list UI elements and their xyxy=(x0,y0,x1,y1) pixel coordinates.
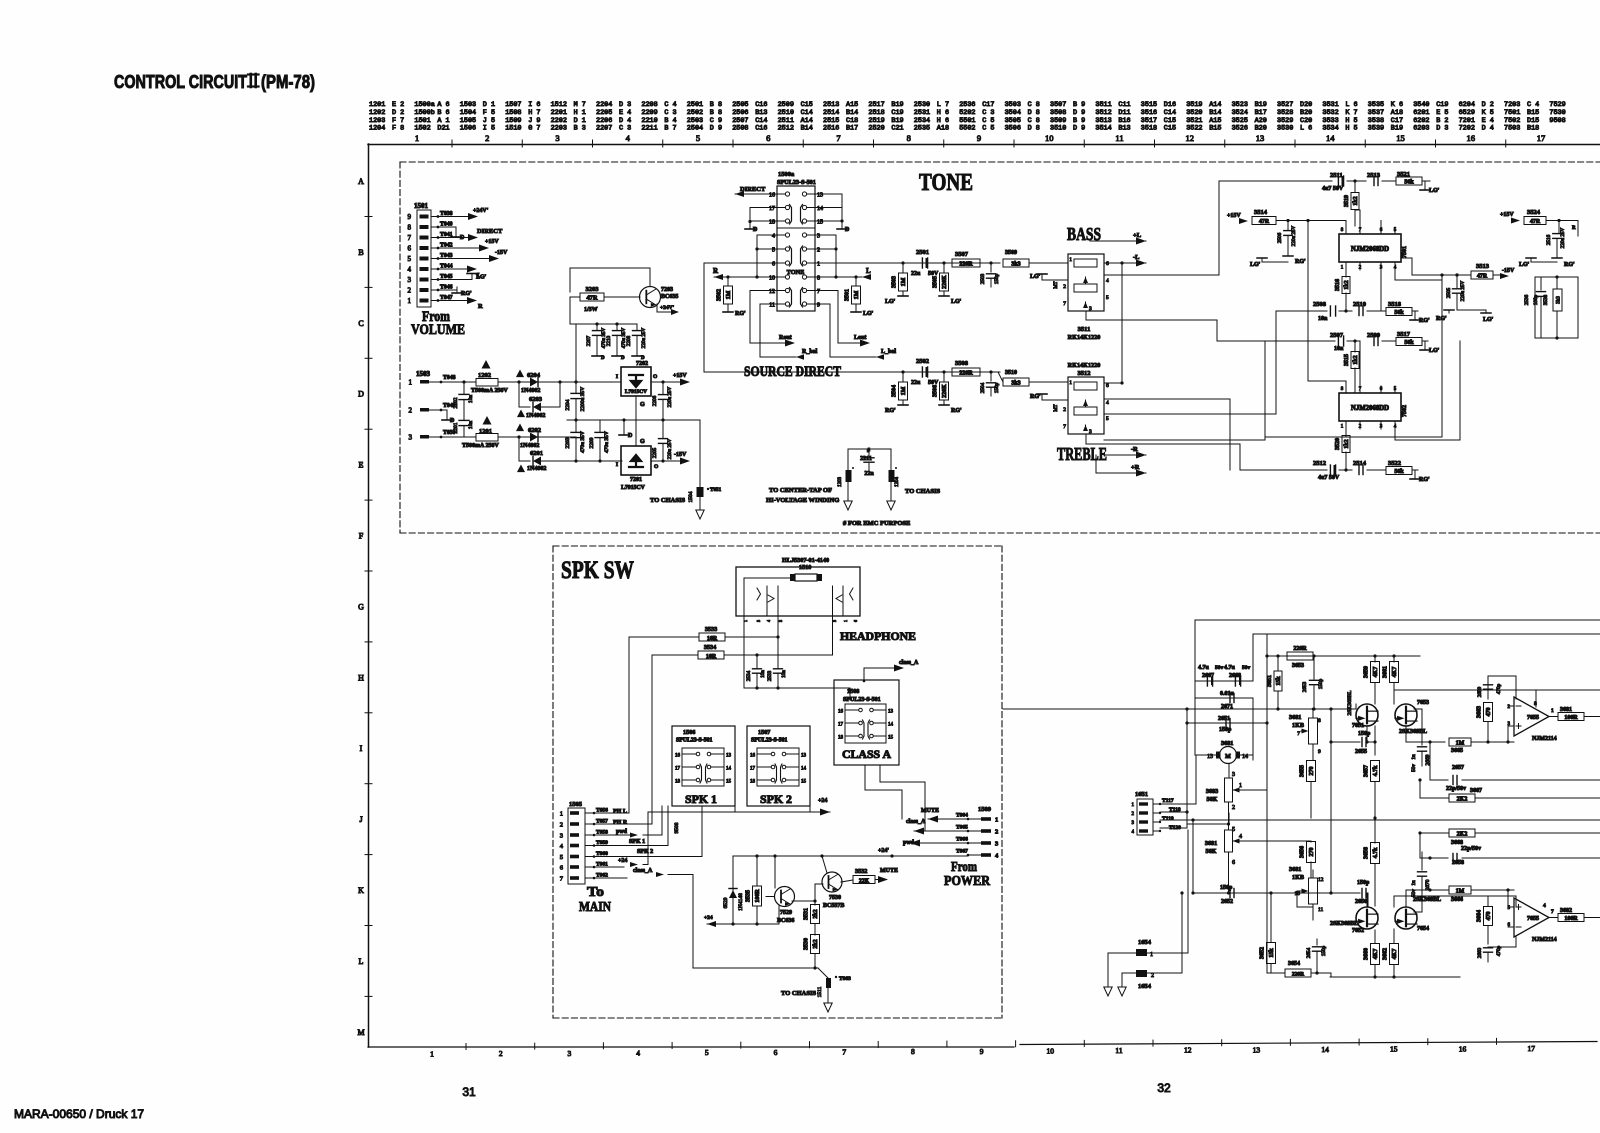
svg-text:7201: 7201 xyxy=(1459,117,1475,125)
svg-text:4u7 50V: 4u7 50V xyxy=(1322,186,1344,192)
svg-text:4: 4 xyxy=(1106,400,1109,406)
svg-text:2512: 2512 xyxy=(778,125,794,133)
svg-text:2SK369BL: 2SK369BL xyxy=(1347,690,1353,716)
svg-text:220R: 220R xyxy=(1293,646,1307,652)
svg-text:T051: T051 xyxy=(710,487,722,493)
svg-text:1503: 1503 xyxy=(416,370,431,378)
svg-text:16: 16 xyxy=(838,710,844,715)
svg-text:C16: C16 xyxy=(755,125,767,133)
svg-text:C15: C15 xyxy=(1164,117,1176,125)
svg-text:LG': LG' xyxy=(1429,188,1440,194)
svg-text:470u 35V: 470u 35V xyxy=(580,431,586,453)
svg-text:B17: B17 xyxy=(1255,109,1267,117)
svg-text:3530: 3530 xyxy=(804,938,810,950)
svg-text:TONE: TONE xyxy=(919,170,973,196)
svg-text:D 2: D 2 xyxy=(392,109,404,117)
svg-text:C20: C20 xyxy=(1300,117,1312,125)
svg-text:M: M xyxy=(357,1028,364,1037)
svg-text:5: 5 xyxy=(696,133,700,143)
svg-text:LG': LG' xyxy=(1519,262,1530,268)
svg-text:C15: C15 xyxy=(1164,125,1176,133)
svg-text:220u 25V: 220u 25V xyxy=(1291,225,1297,246)
svg-text:1202: 1202 xyxy=(478,372,491,379)
svg-text:1: 1 xyxy=(1551,708,1554,714)
svg-text:D 9: D 9 xyxy=(1073,125,1085,133)
svg-text:2SK369BL: 2SK369BL xyxy=(1413,897,1441,903)
svg-text:D: D xyxy=(641,356,645,361)
svg-text:RG': RG' xyxy=(1419,318,1430,324)
svg-text:3522: 3522 xyxy=(1186,125,1202,133)
svg-text:7: 7 xyxy=(1063,424,1066,430)
svg-text:4K7: 4K7 xyxy=(1373,949,1379,960)
svg-text:2: 2 xyxy=(1063,407,1066,413)
svg-text:220u 25V: 220u 25V xyxy=(667,386,673,407)
svg-text:11: 11 xyxy=(1115,133,1123,143)
svg-text:D 9: D 9 xyxy=(1073,109,1085,117)
svg-text:RG': RG' xyxy=(885,408,896,414)
svg-text:3514: 3514 xyxy=(1095,125,1111,133)
svg-text:3540: 3540 xyxy=(1413,101,1429,109)
svg-text:220R: 220R xyxy=(959,371,973,377)
svg-text:47R: 47R xyxy=(1259,219,1270,225)
svg-text:B 2: B 2 xyxy=(1436,117,1448,125)
svg-text:1M: 1M xyxy=(1456,741,1465,747)
svg-text:3506: 3506 xyxy=(1005,125,1021,133)
svg-text:3654: 3654 xyxy=(1288,961,1300,967)
svg-text:11: 11 xyxy=(1318,907,1324,913)
svg-text:2651: 2651 xyxy=(1218,716,1230,722)
svg-text:3521: 3521 xyxy=(1186,117,1202,125)
svg-text:2204: 2204 xyxy=(565,399,571,410)
svg-text:+15V: +15V xyxy=(485,239,499,245)
svg-text:1501: 1501 xyxy=(414,117,430,125)
svg-text:14: 14 xyxy=(817,206,823,212)
svg-text:10: 10 xyxy=(1045,133,1054,143)
svg-text:56k: 56k xyxy=(1394,310,1404,316)
svg-text:3514: 3514 xyxy=(1254,209,1268,216)
svg-text:47R: 47R xyxy=(1530,219,1541,225)
svg-text:3530: 3530 xyxy=(1277,125,1293,133)
svg-text:1504: 1504 xyxy=(460,109,476,117)
svg-text:9: 9 xyxy=(980,1047,984,1056)
svg-text:7654: 7654 xyxy=(1417,926,1429,932)
svg-text:7653: 7653 xyxy=(1417,700,1429,706)
svg-text:K 6: K 6 xyxy=(1391,101,1403,109)
svg-text:E 5: E 5 xyxy=(1436,109,1448,117)
svg-text:7: 7 xyxy=(1297,731,1300,737)
svg-text:470p: 470p xyxy=(1496,683,1502,694)
svg-text:50K: 50K xyxy=(1206,796,1217,803)
svg-text:I: I xyxy=(616,374,618,380)
svg-text:B19: B19 xyxy=(891,101,903,109)
svg-text:SPK SW: SPK SW xyxy=(561,557,634,584)
svg-text:50v: 50v xyxy=(1242,665,1251,671)
svg-text:3505: 3505 xyxy=(1005,117,1021,125)
svg-text:2: 2 xyxy=(817,248,820,254)
svg-text:1203: 1203 xyxy=(838,477,843,488)
svg-text:T117: T117 xyxy=(1162,798,1174,804)
svg-text:3516: 3516 xyxy=(1141,109,1157,117)
svg-text:(PM-78): (PM-78) xyxy=(261,72,315,92)
svg-text:D 8: D 8 xyxy=(1028,125,1040,133)
svg-text:1M: 1M xyxy=(1456,889,1465,895)
svg-text:2207: 2207 xyxy=(596,125,612,133)
svg-text:3511: 3511 xyxy=(1095,101,1111,109)
svg-text:2503: 2503 xyxy=(687,117,703,125)
svg-text:22p/50v: 22p/50v xyxy=(1446,786,1466,792)
svg-text:I 6: I 6 xyxy=(528,101,540,109)
svg-text:L_bal: L_bal xyxy=(881,349,896,355)
svg-text:RK14K1220: RK14K1220 xyxy=(1068,334,1101,341)
svg-text:4.7k: 4.7k xyxy=(1373,847,1379,859)
svg-text:BC557B: BC557B xyxy=(823,903,844,909)
svg-text:100R: 100R xyxy=(755,889,761,903)
svg-text:T500mA 250V: T500mA 250V xyxy=(462,443,500,449)
svg-text:D21: D21 xyxy=(437,125,449,133)
svg-text:L7915CV: L7915CV xyxy=(621,485,646,491)
svg-text:B19: B19 xyxy=(1391,125,1403,133)
svg-text:2535: 2535 xyxy=(914,125,930,133)
svg-text:5202: 5202 xyxy=(959,109,975,117)
svg-text:3507: 3507 xyxy=(955,251,969,258)
svg-text:A15: A15 xyxy=(1209,117,1221,125)
svg-text:2518: 2518 xyxy=(868,109,884,117)
svg-text:15: 15 xyxy=(888,736,894,741)
svg-text:7652: 7652 xyxy=(1352,928,1364,934)
svg-text:C14: C14 xyxy=(1164,109,1176,117)
svg-text:NJM2114: NJM2114 xyxy=(1532,736,1557,742)
svg-text:1u: 1u xyxy=(1411,880,1417,886)
svg-text:3534: 3534 xyxy=(704,644,716,651)
svg-text:B15: B15 xyxy=(1527,109,1539,117)
svg-text:5: 5 xyxy=(705,1048,709,1057)
svg-text:6: 6 xyxy=(1106,261,1109,267)
svg-text:1: 1 xyxy=(1069,257,1072,263)
svg-text:1k2: 1k2 xyxy=(1353,196,1359,205)
svg-text:7201: 7201 xyxy=(630,477,642,483)
svg-text:12: 12 xyxy=(1186,133,1195,143)
svg-text:D: D xyxy=(621,356,625,361)
svg-text:1654: 1654 xyxy=(1138,939,1152,946)
svg-text:17: 17 xyxy=(769,206,775,212)
svg-text:L 6: L 6 xyxy=(1300,125,1312,133)
svg-text:9: 9 xyxy=(977,133,981,143)
svg-text:C 4: C 4 xyxy=(664,101,676,109)
svg-text:RK14K1220: RK14K1220 xyxy=(1068,362,1101,369)
svg-text:2: 2 xyxy=(409,407,413,415)
svg-text:3665: 3665 xyxy=(1451,748,1463,754)
svg-text:5502: 5502 xyxy=(959,125,975,133)
svg-text:100p: 100p xyxy=(1533,294,1539,305)
svg-text:2504: 2504 xyxy=(687,125,703,133)
svg-text:5: 5 xyxy=(772,248,775,254)
svg-text:C16: C16 xyxy=(755,101,767,109)
svg-text:13: 13 xyxy=(1256,133,1265,143)
svg-text:2507: 2507 xyxy=(732,117,748,125)
svg-text:1N4002: 1N4002 xyxy=(527,466,546,472)
svg-text:G: G xyxy=(640,439,645,445)
svg-text:470p: 470p xyxy=(1496,945,1502,956)
svg-text:14: 14 xyxy=(1326,133,1335,143)
svg-text:270: 270 xyxy=(1309,848,1315,857)
svg-text:12: 12 xyxy=(769,289,775,295)
svg-text:B17: B17 xyxy=(846,125,858,133)
svg-text:1: 1 xyxy=(817,262,820,268)
svg-text:50K: 50K xyxy=(1205,848,1216,855)
svg-text:LG': LG' xyxy=(1483,317,1494,323)
svg-text:A15: A15 xyxy=(846,101,858,109)
svg-text:TO CHASIS: TO CHASIS xyxy=(781,990,816,997)
svg-text:LG': LG' xyxy=(1429,348,1440,354)
svg-text:32: 32 xyxy=(1157,1081,1171,1095)
svg-text:3503: 3503 xyxy=(892,276,898,288)
svg-text:B15: B15 xyxy=(1209,125,1221,133)
svg-text:3512: 3512 xyxy=(1095,109,1111,117)
svg-text:7202: 7202 xyxy=(1459,125,1475,133)
svg-text:2502: 2502 xyxy=(687,109,703,117)
svg-text:31: 31 xyxy=(462,1085,476,1099)
svg-text:2514: 2514 xyxy=(823,109,839,117)
svg-text:2202: 2202 xyxy=(551,117,567,125)
svg-text:13: 13 xyxy=(1253,1045,1261,1054)
svg-text:8: 8 xyxy=(911,1047,915,1056)
svg-text:1503: 1503 xyxy=(460,101,476,109)
svg-text:1: 1 xyxy=(995,817,998,824)
svg-text:7503: 7503 xyxy=(1504,125,1520,133)
svg-text:2508: 2508 xyxy=(1313,301,1327,308)
svg-text:1510: 1510 xyxy=(505,125,521,133)
svg-text:+L: +L xyxy=(1133,232,1142,239)
svg-text:100R: 100R xyxy=(1564,715,1578,721)
svg-text:3532: 3532 xyxy=(1322,109,1338,117)
svg-text:-15V: -15V xyxy=(495,250,508,256)
svg-text:22u: 22u xyxy=(911,271,921,277)
svg-text:I 5: I 5 xyxy=(483,125,495,133)
svg-text:1N4002: 1N4002 xyxy=(526,413,545,419)
svg-text:220R: 220R xyxy=(1292,972,1305,978)
svg-text:2515: 2515 xyxy=(823,117,839,125)
svg-text:5: 5 xyxy=(408,255,412,263)
svg-text:9508: 9508 xyxy=(1549,117,1565,125)
svg-text:L 6: L 6 xyxy=(1345,101,1357,109)
svg-text:2501: 2501 xyxy=(916,249,929,256)
svg-text:1511: 1511 xyxy=(817,986,823,997)
svg-text:6: 6 xyxy=(1106,383,1109,389)
svg-text:16: 16 xyxy=(1459,1044,1467,1053)
svg-text:10n: 10n xyxy=(760,670,766,678)
svg-text:T067: T067 xyxy=(956,849,968,855)
svg-text:H 1: H 1 xyxy=(574,109,586,117)
svg-text:3: 3 xyxy=(1232,772,1235,778)
svg-text:3667: 3667 xyxy=(1470,788,1482,794)
svg-text:SPK 1: SPK 1 xyxy=(629,839,645,845)
svg-text:1k2: 1k2 xyxy=(1353,355,1359,364)
svg-text:3: 3 xyxy=(1089,306,1092,312)
svg-text:I: I xyxy=(360,744,363,753)
svg-text:150p: 150p xyxy=(1219,727,1232,733)
svg-text:HLJ5307-01-4140: HLJ5307-01-4140 xyxy=(782,557,829,564)
svg-text:3537: 3537 xyxy=(1368,109,1384,117)
svg-text:B 9: B 9 xyxy=(1073,117,1085,125)
svg-text:H 7: H 7 xyxy=(528,109,540,117)
svg-text:17: 17 xyxy=(838,723,844,728)
svg-text:3529: 3529 xyxy=(1277,117,1293,125)
svg-text:2202: 2202 xyxy=(453,397,459,408)
svg-text:8: 8 xyxy=(907,133,911,143)
svg-text:2658: 2658 xyxy=(1452,860,1464,866)
svg-text:T119: T119 xyxy=(1162,816,1174,822)
svg-text:D: D xyxy=(845,227,850,233)
svg-text:# FOR EMC PURPOSE: # FOR EMC PURPOSE xyxy=(843,520,910,527)
svg-text:7: 7 xyxy=(1063,301,1066,307)
svg-text:1500a: 1500a xyxy=(778,171,795,178)
svg-text:2655: 2655 xyxy=(1355,749,1367,755)
svg-text:D: D xyxy=(601,356,605,361)
svg-text:E 4: E 4 xyxy=(1482,117,1494,125)
svg-text:0.01u: 0.01u xyxy=(1220,691,1235,697)
svg-text:2506: 2506 xyxy=(1277,232,1283,243)
svg-text:470u 35V: 470u 35V xyxy=(604,431,610,453)
svg-text:3681: 3681 xyxy=(1289,866,1301,873)
svg-text:R: R xyxy=(478,303,483,310)
svg-text:2505: 2505 xyxy=(732,101,748,109)
svg-text:4.7k: 4.7k xyxy=(1373,765,1379,777)
svg-text:18: 18 xyxy=(838,736,844,741)
svg-text:T066: T066 xyxy=(956,837,968,843)
svg-text:1M: 1M xyxy=(726,290,732,299)
svg-text:C15: C15 xyxy=(801,101,813,109)
svg-text:15: 15 xyxy=(801,780,807,785)
svg-text:270: 270 xyxy=(1309,767,1315,776)
svg-text:1502: 1502 xyxy=(414,125,430,133)
svg-text:+15V: +15V xyxy=(1500,212,1514,218)
svg-text:220u 25V: 220u 25V xyxy=(1460,280,1466,301)
svg-text:MAIN: MAIN xyxy=(579,900,611,915)
svg-text:B13: B13 xyxy=(1118,125,1130,133)
svg-text:E: E xyxy=(359,461,364,470)
svg-text:2534: 2534 xyxy=(914,117,930,125)
svg-text:PH L: PH L xyxy=(613,809,627,815)
svg-text:3655: 3655 xyxy=(1300,765,1306,777)
svg-text:1505: 1505 xyxy=(460,117,476,125)
svg-text:150p: 150p xyxy=(1318,678,1324,689)
svg-text:3: 3 xyxy=(1089,429,1092,435)
svg-text:LG': LG' xyxy=(863,311,874,317)
svg-text:TO CHASIS: TO CHASIS xyxy=(650,497,685,504)
svg-text:15: 15 xyxy=(1390,1045,1398,1054)
svg-text:O: O xyxy=(653,374,658,380)
svg-text:9508: 9508 xyxy=(674,822,680,833)
svg-text:2: 2 xyxy=(560,822,563,829)
svg-text:C 3: C 3 xyxy=(982,109,994,117)
svg-text:6529: 6529 xyxy=(723,897,729,908)
svg-text:1: 1 xyxy=(560,811,563,818)
svg-text:1651: 1651 xyxy=(1135,791,1148,798)
svg-text:3519: 3519 xyxy=(1344,195,1350,207)
svg-text:3531: 3531 xyxy=(804,908,810,920)
svg-text:D15: D15 xyxy=(1527,117,1539,125)
svg-text:3518: 3518 xyxy=(1388,301,1402,308)
svg-text:2510: 2510 xyxy=(778,109,794,117)
svg-text:3511: 3511 xyxy=(1078,326,1091,333)
svg-text:H 5: H 5 xyxy=(1345,117,1357,125)
svg-text:2210: 2210 xyxy=(641,117,657,125)
svg-text:B 3: B 3 xyxy=(574,125,586,133)
svg-text:H: H xyxy=(358,673,364,682)
svg-text:4: 4 xyxy=(1543,903,1546,909)
svg-text:2205: 2205 xyxy=(596,109,612,117)
svg-text:3664: 3664 xyxy=(1477,910,1483,922)
svg-text:12: 12 xyxy=(1318,877,1324,883)
svg-text:3539: 3539 xyxy=(1368,125,1384,133)
svg-text:11: 11 xyxy=(769,303,775,309)
svg-text:1506: 1506 xyxy=(460,125,476,133)
svg-text:17: 17 xyxy=(675,767,681,772)
svg-text:7: 7 xyxy=(842,1047,846,1056)
svg-text:2534: 2534 xyxy=(746,670,752,681)
svg-text:L: L xyxy=(866,267,871,275)
svg-text:14: 14 xyxy=(888,723,894,728)
svg-text:3656: 3656 xyxy=(1300,846,1306,858)
svg-text:6203: 6203 xyxy=(529,396,543,403)
svg-text:C17: C17 xyxy=(982,101,994,109)
svg-text:6201: 6201 xyxy=(1413,109,1429,117)
svg-text:1N4002: 1N4002 xyxy=(520,443,539,449)
svg-text:150p: 150p xyxy=(994,273,1000,284)
svg-text:6: 6 xyxy=(853,620,858,622)
svg-text:10: 10 xyxy=(1047,1046,1055,1055)
svg-text:8: 8 xyxy=(817,276,820,282)
svg-text:-15V: -15V xyxy=(1502,268,1515,274)
svg-text:MUTE: MUTE xyxy=(921,808,939,814)
svg-text:10R: 10R xyxy=(706,654,717,660)
svg-text:A18: A18 xyxy=(937,125,949,133)
svg-text:BC636: BC636 xyxy=(777,918,794,924)
svg-text:2: 2 xyxy=(408,287,412,295)
svg-text:17: 17 xyxy=(750,767,756,772)
svg-text:220u 25V: 220u 25V xyxy=(641,327,647,348)
svg-text:22u: 22u xyxy=(911,380,921,386)
svg-text:1204: 1204 xyxy=(369,125,385,133)
svg-text:G: G xyxy=(358,602,364,611)
svg-text:150p: 150p xyxy=(1357,880,1370,886)
svg-text:11: 11 xyxy=(1115,1046,1122,1055)
svg-text:2209: 2209 xyxy=(641,109,657,117)
svg-text:6202: 6202 xyxy=(528,427,541,434)
svg-text:150p: 150p xyxy=(1220,885,1233,891)
svg-text:3653: 3653 xyxy=(1292,663,1304,669)
svg-text:2208: 2208 xyxy=(641,101,657,109)
svg-text:D 4: D 4 xyxy=(619,117,631,125)
svg-text:10n: 10n xyxy=(468,395,474,404)
svg-text:13: 13 xyxy=(817,193,823,199)
svg-text:J 5: J 5 xyxy=(483,117,495,125)
svg-text:C 3: C 3 xyxy=(664,109,676,117)
svg-text:1/3W: 1/3W xyxy=(584,307,598,313)
svg-text:4K7: 4K7 xyxy=(1392,667,1398,678)
svg-text:2511: 2511 xyxy=(1330,172,1343,179)
svg-text:SPUL23-S-501: SPUL23-S-501 xyxy=(676,738,712,744)
svg-text:RG': RG' xyxy=(951,408,962,414)
svg-text:B19: B19 xyxy=(1255,101,1267,109)
svg-text:G: G xyxy=(640,402,645,408)
svg-text:C 3: C 3 xyxy=(619,125,631,133)
svg-text:15k: 15k xyxy=(1276,676,1282,686)
svg-text:A: A xyxy=(358,177,364,186)
svg-text:3: 3 xyxy=(817,234,820,240)
svg-text:3: 3 xyxy=(778,620,783,622)
svg-text:3527: 3527 xyxy=(1277,101,1293,109)
